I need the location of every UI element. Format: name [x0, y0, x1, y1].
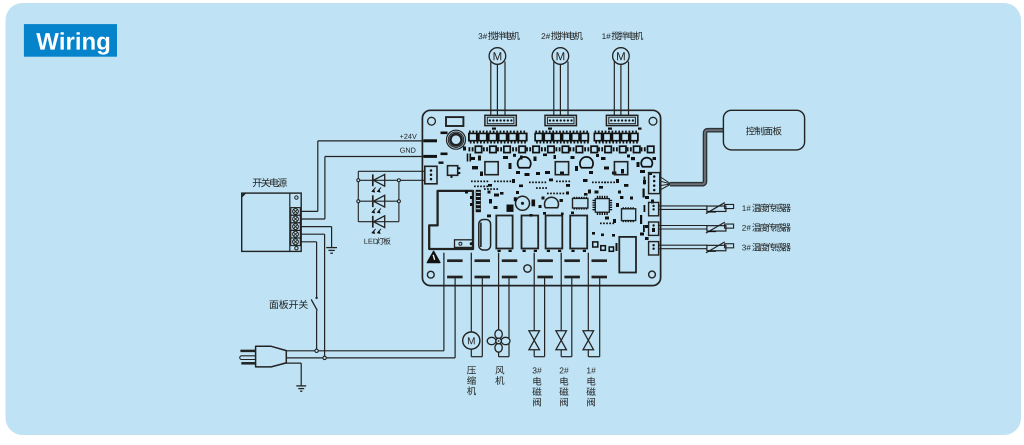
warning triangle [427, 251, 440, 262]
+24V wire [318, 140, 425, 142]
压缩机 label [467, 366, 476, 395]
LED bus wires [358, 170, 425, 172]
7-pin motor connector J1 [606, 115, 637, 125]
QFP microcontroller [595, 199, 609, 213]
PSU bottom screw [295, 247, 298, 250]
component field small parts [471, 157, 476, 160]
LED diode [372, 174, 374, 186]
descending small squares [593, 242, 598, 247]
fan wires [498, 261, 500, 357]
solenoid valve 1# wires [587, 261, 589, 331]
2-pin sensor connector 2# [649, 222, 659, 235]
transformer big relay outline [429, 191, 473, 249]
PSU AC input L via switch [300, 241, 316, 243]
mounting hole top-right [649, 117, 657, 125]
Wiring title box [24, 24, 117, 57]
stirring motor 1# wires [613, 62, 615, 116]
PSU +24V out [300, 210, 318, 212]
fan symbol [495, 330, 502, 339]
stirring motor 3#搅拌电机 M circle [489, 48, 506, 65]
stirring motor 2# wires [553, 62, 555, 116]
compressor M circle [463, 332, 480, 349]
relay driver array block 1 [468, 133, 528, 142]
capacitor top-view [518, 157, 531, 168]
panel switch 面板开关 [315, 297, 317, 299]
plug prong neutral [241, 362, 255, 365]
PSU terminal [291, 238, 301, 246]
label 3#搅拌电机 [478, 33, 487, 39]
2#电磁阀 label [560, 367, 569, 373]
relay K3 [546, 216, 563, 249]
GND feed vertical [324, 157, 326, 220]
right relay [619, 237, 636, 273]
junction circle N-psu [323, 356, 326, 359]
solenoid valve 3# symbol [529, 331, 540, 341]
control panel box 控制面板 [723, 110, 804, 150]
sensor 3# probe [707, 245, 726, 250]
7-pin motor connector J2 [545, 115, 576, 125]
mounting hole top-left [428, 117, 436, 125]
mounting hole bottom-left [427, 271, 434, 278]
solenoid valve 2# wires [560, 261, 562, 331]
IC square [485, 162, 498, 175]
extra silk bits [492, 128, 496, 130]
IC square [614, 162, 627, 175]
4-pin control panel connector [649, 173, 660, 194]
board output terminal pair 4 [533, 253, 535, 261]
board output terminal pair 5 [560, 253, 562, 261]
mounting hole bottom-right [649, 271, 656, 278]
small component row under arrays [469, 147, 471, 151]
earth symbol at plug [296, 385, 306, 387]
IC square [555, 162, 568, 175]
plug prong live [240, 350, 255, 353]
transformer terminal block [455, 240, 474, 248]
2-pin sensor connector 1# [649, 202, 659, 215]
buzzer [447, 130, 466, 149]
3#电磁阀 label [533, 367, 542, 373]
switching power supply box [242, 193, 302, 251]
power plug body [256, 346, 287, 367]
relay driver array block 3 [594, 133, 639, 142]
board output terminal pair 1 [443, 253, 445, 261]
PSU terminal [291, 215, 301, 223]
board output terminal pair 2 [470, 253, 472, 261]
风机 label [495, 366, 504, 385]
compressor wires [470, 261, 472, 332]
mains wire L [286, 350, 444, 352]
7-pin motor connector J3 [485, 115, 516, 125]
PSU GND out [300, 218, 325, 220]
sensor 2# wires [659, 225, 708, 227]
GND wire [325, 156, 425, 158]
3#温度传感器 label [742, 245, 751, 251]
relay K1 [496, 216, 512, 249]
LED灯板 label [364, 239, 377, 244]
stirring motor 2#搅拌电机 M circle [552, 48, 569, 65]
PSU terminal [291, 230, 301, 238]
mounting hole bottom-middle [524, 265, 531, 272]
PSU top screw [295, 196, 298, 199]
jumper block [446, 117, 463, 126]
axial cap [479, 220, 491, 251]
2-pin sensor connector 3# [649, 242, 659, 255]
board output terminal pair 3 [498, 253, 500, 261]
earth symbol at PSU [326, 247, 337, 249]
sensor 2# probe [707, 226, 726, 231]
+24V feed vertical [317, 141, 319, 212]
capacitor top-view [580, 157, 593, 168]
sensor 1# wires [659, 205, 708, 207]
relay driver array block 2 [534, 133, 589, 142]
solenoid valve 1# symbol [583, 331, 594, 341]
board output terminal pair 6 [587, 253, 589, 261]
plug prong earth [240, 356, 256, 360]
right cluster bits [645, 196, 649, 199]
transistor TO circle [545, 197, 559, 208]
label 2#搅拌电机 [542, 33, 551, 39]
junction circle L-switch [315, 349, 318, 352]
mains wire N [286, 357, 455, 359]
LED row 3 wire [358, 221, 399, 223]
TO-220 transistor [448, 166, 458, 176]
1#温度传感器 label [742, 205, 750, 211]
relay K4 [570, 216, 587, 249]
PSU terminal [291, 208, 301, 216]
capacitor top-view [641, 158, 652, 167]
solenoid valve 2# symbol [556, 331, 567, 341]
LED diode [372, 195, 374, 207]
silk text marks [467, 154, 469, 162]
stirring motor 3# wires [490, 62, 492, 116]
black pin header bar [476, 190, 481, 212]
PSU AC input N [300, 233, 324, 235]
sensor 1# probe [707, 206, 726, 211]
control panel cable [670, 130, 723, 184]
开关电源 label [253, 178, 287, 187]
sensor 3# wires [659, 244, 708, 246]
relay K2 [522, 216, 539, 249]
SOIC IC [622, 209, 636, 221]
LED row 1 wire [358, 179, 399, 181]
PSU earth wire [300, 226, 331, 228]
pair1 wires to mains [443, 261, 445, 351]
DIP IC [573, 198, 588, 208]
stirring motor 1#搅拌电机 M circle [613, 48, 630, 65]
2#温度传感器 label [742, 225, 751, 231]
label 1#搅拌电机 [602, 33, 610, 39]
LED row 2 wire [358, 200, 399, 202]
round electrolytic cap [516, 196, 530, 210]
solenoid valve 3# wires [533, 261, 535, 331]
small parts near cap [507, 205, 514, 212]
control panel cable fan-out [660, 177, 671, 185]
1#电磁阀 label [587, 367, 596, 373]
3-pin LED connector [425, 166, 437, 184]
plug earth wire [284, 362, 302, 364]
LED diode [372, 216, 374, 228]
PCB main control board outline [422, 110, 660, 285]
PSU terminal [291, 223, 301, 231]
